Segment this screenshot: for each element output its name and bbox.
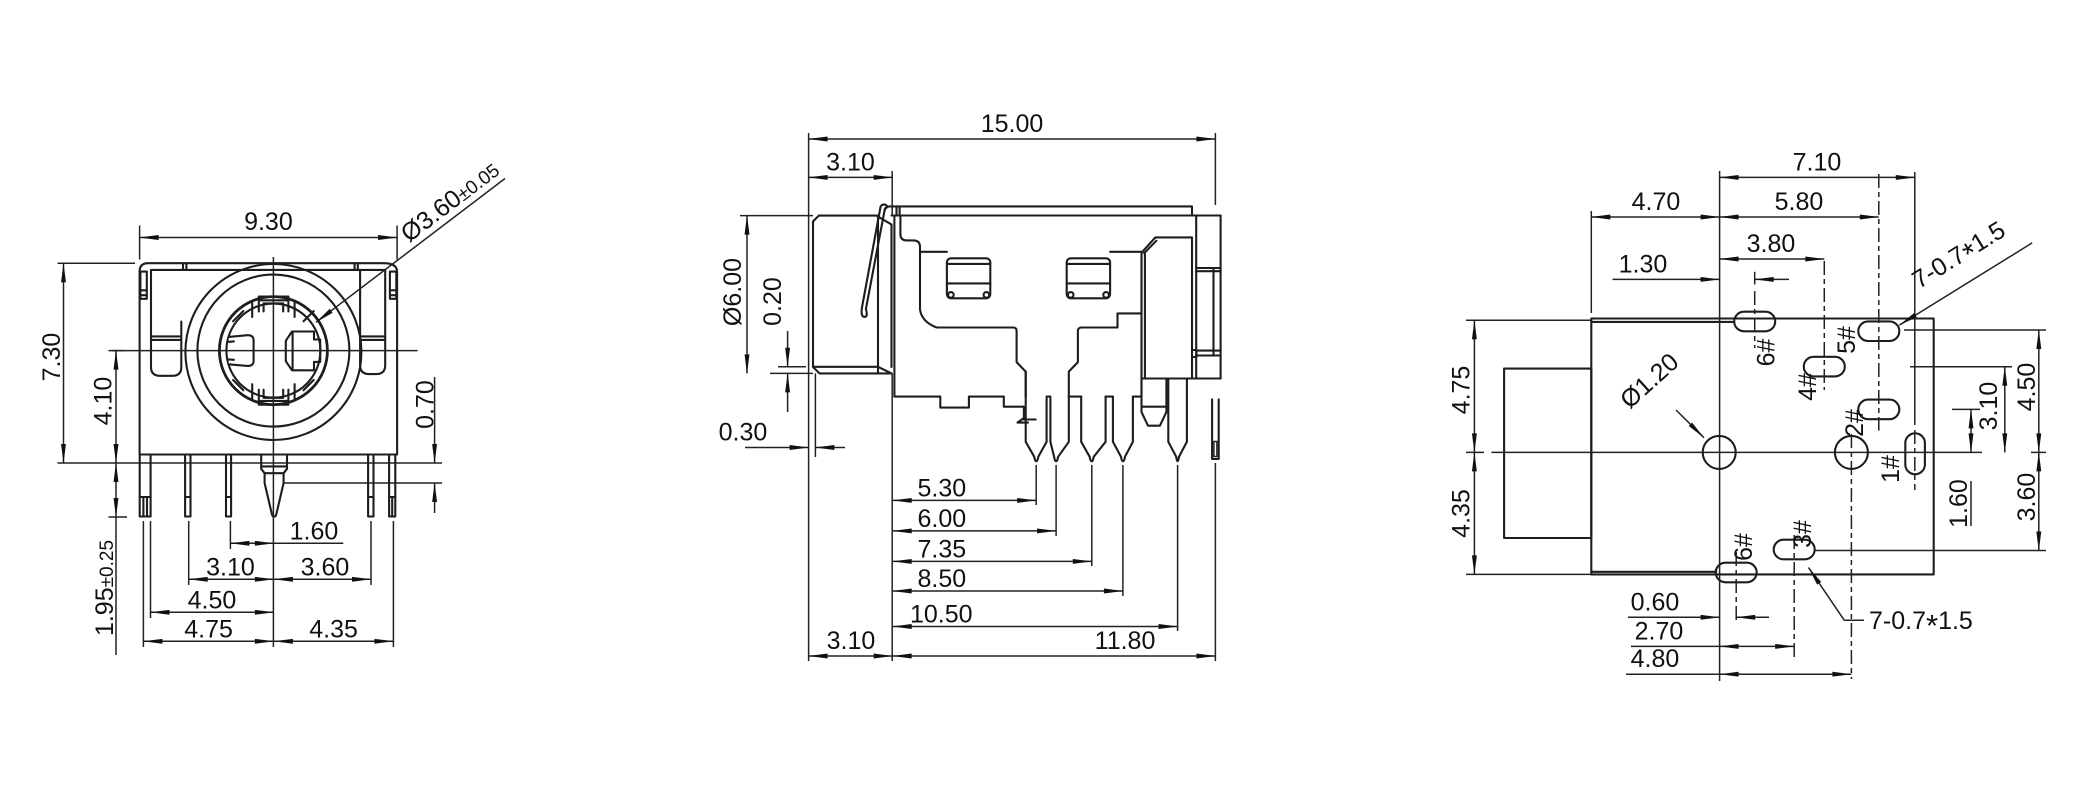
svg-text:4.75: 4.75 xyxy=(184,615,233,643)
dim 3.10 v1 xyxy=(189,578,274,580)
view1 center pin xyxy=(261,455,287,517)
dim 4.35 v3 xyxy=(1473,452,1475,574)
svg-text:2#: 2# xyxy=(1841,409,1869,437)
svg-text:3.10: 3.10 xyxy=(827,627,876,655)
dim 4.70 extension xyxy=(1590,211,1592,313)
view2 pin tip extension lines xyxy=(1035,465,1037,505)
slot 3# xyxy=(1774,540,1815,560)
view1 pin P2 xyxy=(185,455,190,517)
view1 body inner top edge xyxy=(151,269,385,271)
dim 15.00 right extension xyxy=(1214,133,1216,205)
view2 top seam ticks xyxy=(895,206,897,215)
dim 7.30 xyxy=(63,263,65,463)
view1 barrel inner circle xyxy=(197,275,349,427)
dim 0.20 ticks xyxy=(778,366,806,368)
svg-text:0.70: 0.70 xyxy=(412,380,440,429)
view1 pin tip reference line xyxy=(284,482,442,484)
view3 main body rect xyxy=(1591,319,1933,575)
view2 spring wire xyxy=(862,204,888,316)
dim 4.50 v1 xyxy=(151,611,274,613)
svg-text:4.75: 4.75 xyxy=(1447,366,1475,415)
dim 4.35 v1 xyxy=(274,640,394,642)
dim 3.60 v1 xyxy=(274,578,371,580)
slot 4# xyxy=(1804,357,1845,377)
view2 mount face extension line xyxy=(891,171,893,215)
dim 6.00 xyxy=(893,530,1056,532)
dim 9.30 xyxy=(140,237,398,239)
hole H2 centerline xyxy=(1850,434,1852,679)
svg-text:3.10: 3.10 xyxy=(1975,382,2003,431)
dim 4.70 xyxy=(1591,216,1719,218)
dim 8.50 xyxy=(893,590,1123,592)
view2 bottom edge xyxy=(894,397,1003,408)
dim 4.50 v3 xyxy=(2038,330,2040,452)
view2 stub xyxy=(1142,379,1167,426)
dim 15.00 xyxy=(809,138,1216,140)
view2 pin C xyxy=(1081,397,1105,462)
view1 left latch tab xyxy=(140,272,146,299)
svg-text:1.30: 1.30 xyxy=(1619,250,1668,278)
svg-text:1.60: 1.60 xyxy=(1945,479,1973,528)
dim 3.10 v2bot xyxy=(809,655,893,657)
dim 1.30 xyxy=(1613,278,1720,280)
slot centerline 4# xyxy=(1823,261,1825,390)
dim 11.80 xyxy=(893,655,1216,657)
slot 2# xyxy=(1858,400,1899,420)
view1 horizontal centerline xyxy=(112,350,418,352)
svg-text:15.00: 15.00 xyxy=(981,110,1044,138)
view3 barrel rect xyxy=(1504,369,1591,538)
view1 right contact xyxy=(286,332,320,371)
svg-text:5.80: 5.80 xyxy=(1775,188,1824,216)
dim Ø6.00 xyxy=(746,216,748,374)
view1 pin P4 xyxy=(368,455,373,517)
svg-text:6#: 6# xyxy=(1753,339,1781,367)
svg-text:0.60: 0.60 xyxy=(1631,588,1680,616)
slot centerline 6#t xyxy=(1754,291,1756,348)
svg-text:7.35: 7.35 xyxy=(918,535,967,563)
view2 pin A and B tongue xyxy=(1026,372,1047,462)
view2 right block xyxy=(1142,237,1193,378)
svg-text:9.30: 9.30 xyxy=(244,208,293,236)
svg-text:3.60: 3.60 xyxy=(301,553,350,581)
svg-text:1#: 1# xyxy=(1877,455,1905,483)
label 7-0.7*1.5 bottom leader xyxy=(1809,568,1845,621)
view2 bottom bracket xyxy=(1004,397,1036,423)
dim Ø6.00 top extension xyxy=(740,215,813,217)
svg-text:4.50: 4.50 xyxy=(188,586,237,614)
dim 4.35 extension xyxy=(1466,573,1591,575)
view1 top edge seam ticks xyxy=(182,263,184,270)
view2 window W2 xyxy=(1067,258,1110,298)
dim 1.60 v1 xyxy=(230,542,274,544)
dim 4.10 xyxy=(115,351,117,463)
dim 3.10 v3 xyxy=(2004,367,2006,453)
svg-text:0.30: 0.30 xyxy=(719,419,768,447)
view3 centerline xyxy=(1491,451,1982,453)
dim 0.20 xyxy=(787,331,789,367)
view2 barrel outline xyxy=(813,216,892,374)
dim 3.60 v3 xyxy=(2038,452,2040,550)
dim 4.75 v3 xyxy=(1473,320,1475,452)
view1 vertical centerline xyxy=(272,257,274,647)
dim 4.75 v1 xyxy=(143,640,274,642)
view1 left spring tab xyxy=(229,335,254,366)
slot 6# bottom xyxy=(1716,563,1757,583)
svg-text:4.10: 4.10 xyxy=(90,377,118,426)
view1 contact ring outer xyxy=(219,297,327,405)
svg-text:Ø6.00: Ø6.00 xyxy=(719,258,747,326)
svg-text:8.50: 8.50 xyxy=(918,565,967,593)
view1 right flange xyxy=(360,270,385,374)
view3 mount reference line xyxy=(1719,171,1721,681)
svg-text:4#: 4# xyxy=(1794,373,1822,401)
svg-text:7.30: 7.30 xyxy=(38,333,66,382)
view2 body top edge xyxy=(885,206,1221,215)
view1 contact ring inner xyxy=(226,304,320,398)
view1 barrel outer circle xyxy=(185,264,361,440)
view3 top inner edge xyxy=(1591,321,1734,323)
svg-text:10.50: 10.50 xyxy=(910,601,973,629)
dim 4.10 tick xyxy=(109,350,124,352)
svg-text:3.10: 3.10 xyxy=(206,553,255,581)
hole H1 Ø1.20 xyxy=(1703,436,1736,469)
dim 1.60 v3 tick xyxy=(1952,408,1980,410)
dim 7.30 top extension xyxy=(58,262,136,264)
view2 shield right contour xyxy=(1069,313,1142,396)
slot 1# xyxy=(1905,433,1925,474)
dim 10.50 xyxy=(893,626,1178,628)
svg-text:3.80: 3.80 xyxy=(1747,230,1796,258)
dim 3.60 extension xyxy=(1814,550,2046,552)
view2 shield inner contour xyxy=(900,216,1025,397)
slot 6# top xyxy=(1734,312,1775,332)
label Ø3.60±0.05 leader xyxy=(316,179,505,323)
label Ø1.20 leader xyxy=(1676,410,1704,438)
svg-text:7.10: 7.10 xyxy=(1793,148,1842,176)
dim 9.30 extension lines xyxy=(139,226,141,260)
svg-text:1.60: 1.60 xyxy=(290,517,339,545)
svg-text:4.70: 4.70 xyxy=(1632,188,1681,216)
dim 3.10 v3 extension xyxy=(1910,366,2012,368)
svg-text:4.35: 4.35 xyxy=(1447,489,1475,538)
dim 1.95 tick xyxy=(109,516,128,518)
view1 body outline xyxy=(140,263,398,454)
view1 pin P5 xyxy=(389,455,395,517)
slot centerline 1# xyxy=(1914,172,1916,425)
dim 2.70 xyxy=(1631,645,1720,647)
dim 0.30 xyxy=(745,447,809,449)
svg-text:4.35: 4.35 xyxy=(309,615,358,643)
view1 top notch xyxy=(259,297,289,312)
slot 5# xyxy=(1858,321,1899,341)
view1 ring chamfer ticks xyxy=(304,311,314,321)
view1 bottom notch xyxy=(259,390,289,405)
svg-text:4.50: 4.50 xyxy=(2013,363,2041,412)
view1 left flange xyxy=(151,270,181,376)
dim 0.70 xyxy=(434,377,436,463)
hole H2 Ø1.20 xyxy=(1835,436,1868,469)
dim 3.10 v2top xyxy=(809,176,893,178)
view2 fold lines xyxy=(920,251,947,253)
dim 1.95 underline xyxy=(115,517,117,655)
dim 4.50 extension xyxy=(1904,329,2046,331)
dim 5.30 xyxy=(893,499,1036,501)
slot centerline 5#-2# xyxy=(1878,174,1880,431)
svg-text:3.60: 3.60 xyxy=(2013,473,2041,522)
view1 right latch tab xyxy=(390,272,396,299)
svg-text:5.30: 5.30 xyxy=(918,474,967,502)
view2 shield left wall xyxy=(893,216,895,397)
dim 1.95±0.25 xyxy=(115,463,117,517)
svg-text:11.80: 11.80 xyxy=(1095,627,1156,655)
dim 0.60 xyxy=(1628,616,1720,618)
view1 pin P1 xyxy=(140,455,151,517)
slot centerline 6#b xyxy=(1735,552,1737,620)
view2 left extension line xyxy=(808,133,810,661)
dim 5.80 xyxy=(1720,216,1879,218)
dim 7.35 xyxy=(893,560,1092,562)
svg-text:3.10: 3.10 xyxy=(826,148,875,176)
dim 4.75 extension xyxy=(1466,319,1591,321)
view2 bottom edge right segments xyxy=(1047,396,1051,398)
dim 1.60 v3 xyxy=(1970,409,1972,452)
svg-text:2.70: 2.70 xyxy=(1635,617,1684,645)
svg-text:5#: 5# xyxy=(1833,326,1861,354)
view1 seating plane line xyxy=(58,462,443,464)
view2 window W1 xyxy=(947,258,990,298)
view1 pin P3 xyxy=(226,455,231,517)
svg-text:6.00: 6.00 xyxy=(918,505,967,533)
dim 3.80 xyxy=(1720,258,1825,260)
dim 4.80 xyxy=(1626,673,1720,675)
svg-text:0.20: 0.20 xyxy=(759,277,787,326)
svg-text:4.80: 4.80 xyxy=(1631,645,1680,673)
dim 7.10 xyxy=(1720,176,1915,178)
svg-text:3#: 3# xyxy=(1789,520,1817,548)
view2 pin D xyxy=(1113,397,1133,462)
view2 right section xyxy=(1195,216,1197,269)
view2 pin E xyxy=(1168,379,1187,462)
view2 thin pin xyxy=(1212,399,1219,459)
slot centerline 3# xyxy=(1793,535,1795,658)
label 7-0.7*1.5 top leader xyxy=(1899,243,2032,325)
view2 sleeve hidden edge xyxy=(814,373,816,457)
view1 bottom extension lines xyxy=(142,521,144,647)
view3 bottom inner edge xyxy=(1591,571,1716,573)
svg-text:6#: 6# xyxy=(1730,533,1758,561)
